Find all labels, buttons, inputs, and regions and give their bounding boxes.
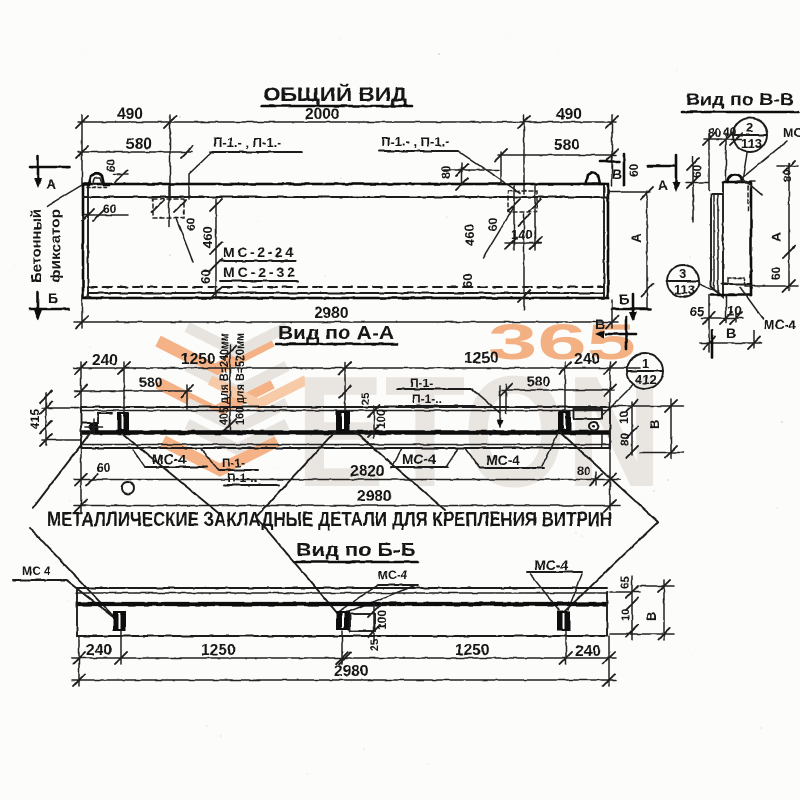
WATERMARK — [158, 314, 662, 520]
marker В top right — [600, 160, 619, 163]
svg-text:В: В — [726, 325, 736, 341]
dim 415 left — [45, 393, 47, 445]
svg-text:ОБЩИЙ ВИД: ОБЩИЙ ВИД — [263, 84, 408, 106]
svg-text:2820: 2820 — [350, 463, 384, 480]
svg-text:460: 460 — [462, 224, 477, 246]
leader embed to MC-2 labels — [176, 218, 193, 262]
svg-text:фиксатор: фиксатор — [47, 209, 63, 283]
right plate detail — [574, 409, 602, 419]
embed МС-4 right (plan) — [558, 411, 571, 431]
marker А left arrow — [30, 166, 69, 169]
svg-text:580: 580 — [139, 374, 163, 390]
plate outline right of middle embed — [350, 614, 375, 631]
svg-text:25: 25 — [369, 639, 381, 651]
dim row 490/2000/490 — [78, 121, 616, 123]
svg-text:65: 65 — [690, 304, 704, 319]
svg-text:2: 2 — [746, 120, 753, 135]
svg-text:П-1-: П-1- — [410, 376, 433, 390]
band of Б-Б — [77, 587, 607, 589]
svg-text:В: В — [595, 316, 605, 332]
embed mark left (dashed) — [153, 199, 184, 218]
dim line right of panel (A height) — [646, 191, 648, 308]
svg-text:П-1-: П-1- — [222, 456, 245, 470]
svg-text:МС-4: МС-4 — [534, 557, 568, 573]
svg-text:2980: 2980 — [357, 488, 391, 505]
svg-text:Бетонный: Бетонный — [28, 209, 44, 283]
svg-text:65: 65 — [618, 575, 632, 589]
svg-text:МС-4: МС-4 — [378, 568, 408, 582]
svg-text:580: 580 — [554, 137, 580, 154]
dim row 2820 — [74, 479, 620, 481]
lifting hook left — [85, 174, 109, 185]
circle 3/113 — [667, 265, 699, 297]
svg-text:2000: 2000 — [305, 106, 339, 123]
left anchor circle — [89, 422, 99, 432]
svg-text:80: 80 — [577, 464, 591, 478]
embed МС-4 left (plan) — [117, 412, 129, 431]
bottom dim line of BB — [700, 342, 762, 344]
svg-text:60: 60 — [104, 158, 118, 172]
circle 1/412 — [627, 353, 663, 389]
svg-text:460: 460 — [200, 226, 215, 248]
svg-text:412: 412 — [635, 372, 657, 387]
svg-text:Вид по В-В: Вид по В-В — [686, 90, 794, 109]
dim 580 right — [498, 154, 616, 156]
circle 2/113 — [733, 118, 767, 152]
dim 2980 — [72, 679, 616, 681]
svg-text:240: 240 — [86, 642, 112, 659]
embed middle (Б-Б) — [336, 611, 350, 630]
right small dims 10/80 — [631, 402, 633, 455]
leader lines to caption — [33, 428, 94, 508]
svg-text:60: 60 — [690, 164, 704, 178]
embed left (Б-Б) — [113, 611, 126, 631]
svg-text:60: 60 — [486, 217, 500, 231]
svg-text:Б: Б — [619, 291, 629, 307]
dim 140 — [505, 242, 541, 244]
В bracket right — [670, 399, 672, 458]
svg-text:60: 60 — [627, 163, 641, 177]
dim 100 at middle embed — [373, 604, 375, 642]
svg-text:МС-4: МС-4 — [152, 451, 186, 467]
dim 2980 bottom — [74, 321, 618, 323]
svg-text:100: 100 — [374, 409, 388, 429]
svg-text:А: А — [628, 233, 644, 243]
svg-text:МС-4: МС-4 — [764, 317, 797, 332]
svg-text:80: 80 — [618, 432, 632, 446]
svg-text:240: 240 — [92, 352, 118, 369]
svg-text:Вид по А-А: Вид по А-А — [278, 323, 394, 343]
svg-text:60: 60 — [184, 217, 198, 231]
svg-text:490: 490 — [556, 106, 582, 123]
svg-text:А: А — [46, 176, 56, 192]
svg-text:10: 10 — [617, 410, 631, 424]
svg-text:60: 60 — [769, 266, 783, 280]
svg-text:П-1-..: П-1-.. — [412, 392, 442, 406]
dim row 240/1250/1250/240 — [74, 367, 640, 369]
svg-text:60: 60 — [103, 202, 117, 216]
svg-text:415: 415 — [28, 409, 42, 429]
panel outline — [83, 184, 608, 298]
dashed embed top right — [747, 186, 749, 211]
vertical dim line left inner — [215, 199, 217, 299]
svg-text:МС-4: МС-4 — [486, 452, 520, 468]
svg-text:490: 490 — [117, 106, 143, 123]
right dim line А/60 — [788, 163, 790, 291]
dim 580 left — [78, 151, 192, 153]
section body: panel thickness strip — [711, 183, 723, 297]
section right edge — [750, 182, 753, 287]
svg-text:240: 240 — [574, 351, 600, 368]
section bottom shelf — [722, 283, 751, 285]
dim row 2980 — [74, 505, 620, 507]
svg-text:1250: 1250 — [455, 642, 489, 659]
svg-text:П-1-..: П-1-.. — [227, 471, 257, 485]
svg-text:1: 1 — [642, 356, 649, 371]
dim 100 middle — [373, 406, 375, 438]
svg-text:60: 60 — [97, 461, 111, 475]
svg-text:580: 580 — [527, 373, 551, 389]
leaders to left embed — [30, 528, 115, 618]
dim 60 under hook — [84, 214, 128, 216]
svg-text:1250: 1250 — [201, 642, 235, 659]
svg-text:580: 580 — [126, 136, 152, 153]
svg-text:60: 60 — [198, 270, 213, 284]
section top hook — [728, 175, 742, 183]
extension lines up — [81, 115, 83, 186]
svg-text:В: В — [644, 612, 659, 621]
svg-text:2980: 2980 — [314, 305, 348, 322]
svg-text:В: В — [647, 420, 662, 429]
dim 580 left — [74, 390, 192, 392]
svg-text:100: 100 — [375, 610, 389, 630]
svg-text:140: 140 — [511, 227, 533, 242]
svg-text:113: 113 — [741, 136, 762, 151]
embed mark right (dashed) — [508, 191, 537, 212]
svg-text:МЕТАЛЛИЧЕСКИЕ ЗАКЛАДНЫЕ ДЕТАЛИ: МЕТАЛЛИЧЕСКИЕ ЗАКЛАДНЫЕ ДЕТАЛИ ДЛЯ КРЕПЛ… — [47, 509, 612, 531]
В bracket right — [663, 580, 665, 640]
vertical ref line for 405/160 notes — [229, 345, 231, 430]
marker А top right arrow — [648, 165, 675, 168]
svg-text:80: 80 — [439, 165, 453, 179]
dim row 240/1250/1250/240 — [72, 657, 616, 659]
embed МС-4 middle (plan) — [336, 411, 350, 431]
dashed mid line — [88, 286, 604, 288]
svg-text:А: А — [658, 177, 668, 193]
band (panel in plan) — [81, 406, 610, 408]
svg-text:МС: МС — [783, 125, 800, 140]
svg-text:1250: 1250 — [464, 350, 498, 367]
svg-text:113: 113 — [674, 282, 695, 297]
svg-text:25: 25 — [360, 393, 372, 405]
svg-text:МС-4: МС-4 — [402, 451, 436, 467]
embed right (Б-Б) — [557, 611, 570, 631]
dash-dot top — [737, 180, 755, 182]
svg-text:Вид по Б-Б: Вид по Б-Б — [296, 540, 416, 560]
svg-text:П-1.- , П-1.-: П-1.- , П-1.- — [381, 134, 450, 149]
long leader to middle embed — [256, 517, 338, 614]
svg-text:Б: Б — [48, 290, 58, 306]
svg-text:60: 60 — [460, 274, 475, 288]
svg-text:1250: 1250 — [181, 351, 215, 368]
svg-text:240: 240 — [575, 643, 601, 660]
svg-text:2980: 2980 — [334, 663, 368, 680]
dim 580 right — [502, 389, 614, 391]
watermark logo chevrons — [158, 327, 306, 470]
svg-text:3: 3 — [679, 266, 686, 281]
svg-text:МС 4: МС 4 — [22, 564, 51, 578]
lifting hook right — [578, 173, 605, 184]
left bracket detail — [81, 413, 112, 423]
svg-text:П-1.- , П-1.-: П-1.- , П-1.- — [213, 135, 282, 150]
small circle lower left — [122, 482, 134, 494]
svg-text:А: А — [768, 232, 784, 242]
svg-text:В: В — [612, 166, 622, 182]
